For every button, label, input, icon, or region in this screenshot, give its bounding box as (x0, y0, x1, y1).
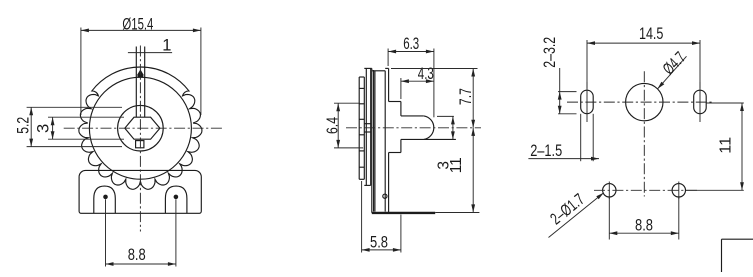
svg-text:11: 11 (717, 137, 734, 154)
dim O15.4 extension lines (80, 28, 82, 116)
svg-text:2–3.2: 2–3.2 (541, 37, 559, 68)
side view: rotor teeth rungs (359, 87, 364, 89)
svg-text:7.7: 7.7 (457, 88, 475, 105)
svg-text:4.3: 4.3 (418, 65, 434, 83)
title block corner (722, 238, 753, 240)
dim 11 line (layout) (741, 103, 743, 190)
dim 2-3.2 extension lines (558, 91, 577, 93)
dim 14.5 extension lines (586, 40, 588, 88)
layout: right slot (694, 90, 707, 114)
side view: cover plate (371, 68, 373, 212)
svg-text:5.8: 5.8 (370, 233, 388, 251)
dim 3 extension lines (48, 116, 124, 118)
side view: rotor wheel plate (358, 77, 360, 179)
dim 6.4 line (337, 103, 339, 148)
front view: vertical centerline (139, 46, 141, 232)
front view: right terminal boss (165, 186, 187, 213)
dim 8.8 line (106, 263, 176, 265)
dim 14.5 line (587, 42, 700, 44)
svg-text:6.3: 6.3 (403, 35, 419, 53)
front view: rotor root circle (89, 77, 191, 179)
dim 8.8 extension lines (layout) (608, 197, 610, 239)
dim O15.4 line (81, 29, 201, 31)
front view: horizontal centerline (64, 127, 224, 129)
dim 2-1.5 leader (528, 158, 599, 160)
side view: rivet (383, 194, 387, 198)
side view: body front plate (374, 71, 376, 212)
svg-text:2–1.5: 2–1.5 (530, 142, 562, 160)
layout: lower centerline (594, 189, 699, 191)
svg-text:8.8: 8.8 (128, 246, 146, 264)
front view: body outline (79, 170, 201, 213)
dim 6.3 line (388, 51, 434, 53)
side view: middle plate hub lines (364, 123, 370, 125)
side view: shaft (401, 115, 424, 117)
dim 2-3.2 line (559, 68, 561, 114)
front view: hexagon recess (125, 117, 160, 139)
front view: right pin (174, 195, 179, 200)
dim 8.8 extension lines (105, 199, 107, 266)
dim 4.3 extension line (400, 78, 402, 99)
dim 2-1.5 extension lines (580, 114, 582, 161)
dim 11 extension lines (layout) (706, 102, 744, 104)
dim 5.2 extension lines (27, 106, 122, 108)
dim 3 line (52, 117, 54, 139)
svg-text:11: 11 (448, 157, 465, 173)
side view: shaft boss (389, 101, 401, 103)
dim 1 leader (128, 52, 172, 54)
dim 8.8 line (layout) (609, 232, 679, 234)
layout: center hole (626, 83, 663, 120)
svg-text:3: 3 (34, 124, 52, 133)
dim 4.3 line (401, 80, 434, 82)
svg-text:14.5: 14.5 (639, 25, 664, 43)
dim 7.7 extension line (391, 68, 478, 70)
front view: rotor gear outline (79, 67, 202, 189)
svg-text:8.8: 8.8 (635, 217, 653, 235)
front view: hub circle (118, 105, 164, 151)
front view: left terminal boss (94, 186, 116, 213)
side view: middle plate (365, 68, 367, 185)
front view: left pin (103, 195, 108, 200)
svg-text:6.4: 6.4 (324, 117, 341, 134)
svg-text:5.2: 5.2 (15, 117, 33, 134)
svg-text:1: 1 (162, 37, 171, 55)
front view: slot notch below hexagon (136, 141, 144, 148)
layout: horizontal centerline (567, 101, 714, 103)
dim 3 extension line (side) (437, 115, 454, 117)
layout: pin hole ticks (608, 182, 610, 200)
dim 5.8 line (362, 249, 401, 251)
layout: vertical centerline (643, 71, 645, 196)
dim 2-O1.7 leader (549, 193, 604, 238)
dim 7.7 line (472, 69, 474, 128)
dim 3 line (side) (452, 116, 454, 139)
dim 6.4 extension lines (334, 102, 360, 104)
side view: shaft bottom and ext (401, 138, 456, 140)
side view: centerline (346, 127, 481, 129)
layout: left slot (581, 90, 594, 114)
front view: screwdriver slot edges (135, 47, 137, 118)
layout: left pin hole (603, 184, 616, 197)
dim 6.3 extension lines (387, 49, 389, 67)
side view: mounting leg (372, 212, 435, 214)
svg-text:Ø15.4: Ø15.4 (122, 15, 153, 33)
dim 11 line (side view) (472, 128, 474, 212)
dim O4.7 leader (658, 56, 687, 89)
front view: rim indicator mark (137, 69, 144, 77)
layout: slot centerline ticks (586, 82, 588, 122)
layout: right pin hole (672, 184, 685, 197)
dim 5.2 line (30, 107, 32, 146)
side view: top edge (364, 67, 372, 69)
dim 5.8 extension lines (361, 181, 363, 253)
side view: body back edge (388, 68, 390, 101)
